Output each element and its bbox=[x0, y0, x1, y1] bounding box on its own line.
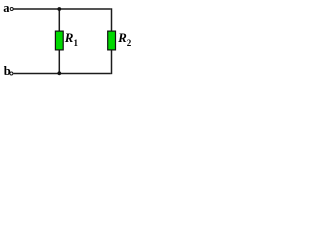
terminal label b bbox=[4, 65, 11, 78]
terminal label a bbox=[3, 2, 9, 15]
wire right side from resistor R2 bottom to bottom-right corner bbox=[111, 50, 113, 74]
resistor R2 body bbox=[108, 31, 116, 50]
terminal a open circle bbox=[10, 8, 13, 11]
terminal b open circle bbox=[10, 72, 13, 75]
wire branch R1 from resistor R1 bottom to bottom node bbox=[58, 50, 60, 73]
wire right side down to resistor R2 top bbox=[111, 8, 113, 31]
label R2 bbox=[118, 31, 131, 48]
wire branch R1 from top node down to resistor R1 bbox=[58, 9, 60, 31]
node junction top of R1 branch bbox=[57, 7, 61, 11]
node junction bottom of R1 branch bbox=[57, 71, 61, 75]
resistor R1 body bbox=[55, 31, 63, 50]
wire top from terminal a to top-right corner bbox=[13, 8, 110, 10]
wire bottom from bottom-right corner to terminal b bbox=[13, 73, 111, 75]
label R1 bbox=[65, 31, 78, 48]
